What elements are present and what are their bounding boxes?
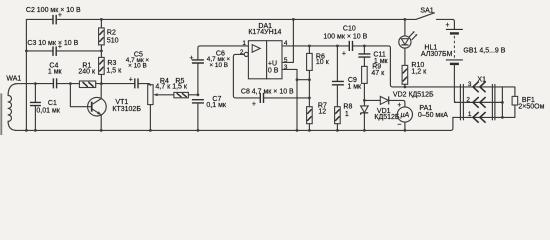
node loop row2 <box>501 101 504 104</box>
svg-text:C3 10 мк × 10 В: C3 10 мк × 10 В <box>27 40 78 47</box>
capacitor C2 <box>26 7 81 25</box>
node top rail pin5 <box>292 18 295 21</box>
wire top rail main segment <box>57 18 416 20</box>
diode VD2 <box>364 91 434 107</box>
wire base column <box>70 84 91 107</box>
node C6 C7 R5 <box>197 93 200 96</box>
svg-text:1,2 к: 1,2 к <box>411 68 427 75</box>
connector X1 <box>460 76 495 122</box>
wire top rail left segment <box>26 18 52 20</box>
svg-text:C1: C1 <box>48 100 57 107</box>
node rail R8 <box>336 129 339 132</box>
wire output row right with corner down to meter row <box>353 46 503 87</box>
wire headphone loop left <box>501 87 503 118</box>
node top rail R2 <box>100 18 103 21</box>
svg-text:C10: C10 <box>343 26 356 33</box>
node loop row1 <box>501 116 504 119</box>
svg-text:510: 510 <box>107 38 119 45</box>
svg-text:μA: μA <box>400 112 410 119</box>
transistor VT1 <box>88 84 142 131</box>
svg-text:C8 4,7 мк × 10 В: C8 4,7 мк × 10 В <box>241 88 294 95</box>
wire pin3 to bottom rail <box>282 69 297 130</box>
resistor R10 <box>402 48 427 87</box>
wire pin2 to C8 <box>233 54 260 98</box>
capacitor C7 <box>192 96 227 130</box>
svg-text:C2 100 мк × 10 В: C2 100 мк × 10 В <box>26 7 81 14</box>
node rail col26 <box>25 129 28 132</box>
capacitor C8 <box>241 88 294 108</box>
svg-text:+U: +U <box>268 60 277 67</box>
resistor R8 <box>335 104 353 131</box>
node C11 top <box>363 45 366 48</box>
battery GB1 <box>445 22 505 64</box>
svg-text:2×50Ом: 2×50Ом <box>518 103 544 110</box>
capacitor C6 <box>189 46 248 95</box>
switch SA1 <box>416 7 435 19</box>
wire top rail right segment to battery <box>436 19 454 29</box>
svg-text:АЛ307БМ: АЛ307БМ <box>421 51 453 58</box>
wire bottom rail <box>15 117 453 130</box>
svg-text:1 мк: 1 мк <box>48 68 63 75</box>
svg-text:+: + <box>252 101 256 108</box>
capacitor C9 <box>332 46 362 107</box>
capacitor C11 <box>358 46 388 67</box>
pin 2 inversion circle <box>244 52 248 56</box>
svg-text:0,1 мк: 0,1 мк <box>206 102 226 109</box>
svg-text:+: + <box>342 50 346 57</box>
resistor R2 <box>99 19 119 45</box>
node base column <box>69 82 72 85</box>
svg-text:X1: X1 <box>477 76 486 83</box>
svg-text:VD2 КД512Б: VD2 КД512Б <box>393 91 434 98</box>
svg-text:1: 1 <box>468 111 472 118</box>
resistor R9 <box>362 63 386 100</box>
node C3 left <box>25 50 28 53</box>
LED HL1 <box>399 19 453 58</box>
node rail C7 <box>197 129 200 132</box>
node bridge R6 <box>308 78 311 81</box>
node C3 right <box>100 50 103 53</box>
node rail C1 <box>34 129 37 132</box>
wire R5 to C6/C7 node <box>188 94 198 96</box>
capacitor C1 <box>30 84 61 131</box>
node rail PA1 <box>404 129 407 132</box>
diode VD1 <box>361 100 400 130</box>
headphones BF1 <box>502 87 544 118</box>
wire ground vertical left column <box>25 19 27 130</box>
svg-text:0–50 мкА: 0–50 мкА <box>418 112 448 119</box>
paper scan edge shadow <box>0 93 2 135</box>
svg-text:1,5 к: 1,5 к <box>172 83 188 90</box>
resistor R3 <box>99 57 122 74</box>
svg-text:−: − <box>397 121 401 128</box>
svg-text:0,01 мк: 0,01 мк <box>36 108 60 115</box>
svg-text:3: 3 <box>468 81 472 88</box>
wire row C3 right <box>57 50 102 52</box>
node feedback row <box>308 97 311 100</box>
svg-text:× 10 В: × 10 В <box>209 62 228 69</box>
svg-text:РА1: РА1 <box>419 105 432 112</box>
capacitor C5 <box>126 51 150 88</box>
wire X1 row1 <box>453 116 515 118</box>
svg-text:1,5 к: 1,5 к <box>106 68 122 75</box>
svg-text:К174УН14: К174УН14 <box>248 29 281 36</box>
svg-text:47 к: 47 к <box>371 70 385 77</box>
wire pin5 to top rail <box>282 19 293 62</box>
antenna WA1 <box>6 75 21 130</box>
resistor R5 <box>172 78 188 98</box>
svg-text:10 к: 10 к <box>316 59 330 66</box>
node rail R7 <box>308 129 311 132</box>
capacitor C3 <box>27 40 78 56</box>
svg-text:+: + <box>129 77 133 84</box>
svg-text:1 мк: 1 мк <box>347 83 362 90</box>
wire C8 to node <box>264 97 310 99</box>
svg-text:× 10 В: × 10 В <box>128 63 147 70</box>
node C1 top <box>34 82 37 85</box>
svg-text:1: 1 <box>242 40 246 47</box>
potentiometer R4 <box>148 78 174 130</box>
wire row C3 left <box>26 50 52 52</box>
node VD1 top <box>363 99 366 102</box>
node rail emitter <box>100 129 103 132</box>
node top rail HL1 <box>404 18 407 21</box>
svg-text:VT1: VT1 <box>115 99 128 106</box>
svg-text:4,7 к: 4,7 к <box>155 83 171 90</box>
wire output row <box>282 45 349 47</box>
svg-text:+: + <box>445 22 449 29</box>
meter PA1 <box>397 102 448 130</box>
wire signal row83 left <box>15 83 52 85</box>
node bridge pin3 <box>296 78 299 81</box>
node R10 bottom <box>404 86 407 89</box>
svg-text:WA1: WA1 <box>6 75 21 82</box>
node rail VD1 <box>363 129 366 132</box>
svg-text:0 В: 0 В <box>268 67 279 74</box>
svg-text:R2: R2 <box>107 30 116 37</box>
wire battery minus down to X1 row2 <box>454 65 502 103</box>
resistor R6 <box>307 46 330 107</box>
svg-text:GB1 4,5...9 В: GB1 4,5...9 В <box>463 47 505 54</box>
resistor R1 <box>78 62 96 87</box>
resistor R7 <box>307 102 327 130</box>
svg-text:2: 2 <box>466 96 470 103</box>
svg-text:+: + <box>397 102 401 109</box>
svg-text:+: + <box>189 55 193 62</box>
svg-text:100 мк × 10 В: 100 мк × 10 В <box>323 33 367 40</box>
svg-text:12: 12 <box>318 108 326 115</box>
wire row83 R1 to C5 <box>96 83 135 85</box>
svg-text:240 к: 240 к <box>78 68 96 75</box>
capacitor C4 <box>48 62 63 88</box>
svg-text:SA1: SA1 <box>420 7 433 14</box>
node C9 top <box>336 45 339 48</box>
wire bridge pin3 to R6 column <box>297 79 309 81</box>
svg-text:КТ3102Б: КТ3102Б <box>112 106 141 113</box>
node collector <box>100 82 103 85</box>
wire R3 to collector node <box>100 74 102 83</box>
op-amp DA1 <box>240 23 288 79</box>
capacitor C10 <box>323 26 367 58</box>
node rail pin3 <box>296 129 299 132</box>
node R6 top <box>308 45 311 48</box>
wire row83 C4 to R1 <box>57 83 79 85</box>
svg-text:1: 1 <box>345 111 349 118</box>
svg-text:R8: R8 <box>343 104 352 111</box>
svg-text:КД512Б: КД512Б <box>374 114 399 121</box>
wire R2 to row C3 <box>100 45 102 58</box>
wire X1 row2 end <box>454 101 502 103</box>
node rail R4 <box>149 129 152 132</box>
svg-text:R3: R3 <box>107 60 116 67</box>
wire C5 to R4 <box>138 84 150 86</box>
